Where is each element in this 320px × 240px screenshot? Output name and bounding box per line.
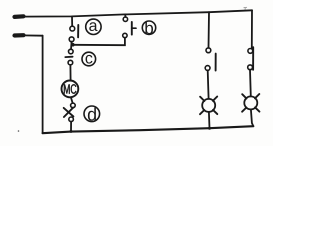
label b [142,21,155,34]
wire L2 to left drop [23,34,43,36]
terminal stub L2 [15,33,24,37]
wire lamp 2 to bottom rail [251,109,253,126]
contact c terminal circle bottom [68,60,73,65]
contact a terminal circle top [70,26,75,31]
overload contact d terminal circle top [71,103,76,108]
contact MC-a terminal circle bottom [205,66,210,71]
contact a terminal circle bottom [69,37,74,42]
wire c to coil MC [69,65,71,81]
lamp 1 [200,97,217,115]
wire MC to overload contact d [71,97,73,103]
label a [86,19,101,34]
label c [82,52,96,66]
pushbutton b terminal circle bottom [123,33,127,37]
wire lamp 1 to bottom rail [208,112,211,128]
pushbutton b movable bar [131,22,133,35]
overload contact d terminal circle bottom [69,117,74,122]
terminal stub L1 [15,14,24,19]
wire top rail [23,10,252,16]
label d [84,106,100,122]
contact a movable bar [77,25,79,37]
wire rail corner to lamp branch 2 [251,10,253,48]
wire bottom rail [43,126,254,133]
junction dot lamp 1 [208,127,211,130]
wire left vertical drop [42,36,44,134]
contact c terminal circle top [69,49,74,54]
wire contact to lamp 2 [249,70,252,97]
pushbutton b actuator tick [132,27,136,29]
contact MC-a terminal circle top [206,48,211,53]
contact MC-a movable bar [215,54,217,71]
pushbutton b terminal circle top [123,17,127,21]
wire rail to contact a [71,16,73,26]
wire contact to lamp 1 [207,70,210,98]
junction dot bottom [70,130,73,133]
contact c movable bar [65,56,72,58]
lamp 2 [242,94,259,112]
coil MC [62,81,79,98]
overload contact d cross stroke 2 [64,108,73,117]
contact MC-b terminal circle top [248,49,253,54]
wire parallel branch to pushbutton b [73,38,125,46]
speckle [18,130,20,132]
contact MC-b movable bar [252,47,254,70]
node junction dot [71,43,75,47]
wire b to rail [124,15,126,17]
contact MC-b terminal circle bottom [248,65,253,70]
speckle [244,7,248,9]
overload contact d cross stroke 1 [64,108,74,117]
wire d to bottom rail [70,122,72,132]
wire rail to lamp branch 1 [208,12,211,48]
wire contact a to node [70,42,73,50]
